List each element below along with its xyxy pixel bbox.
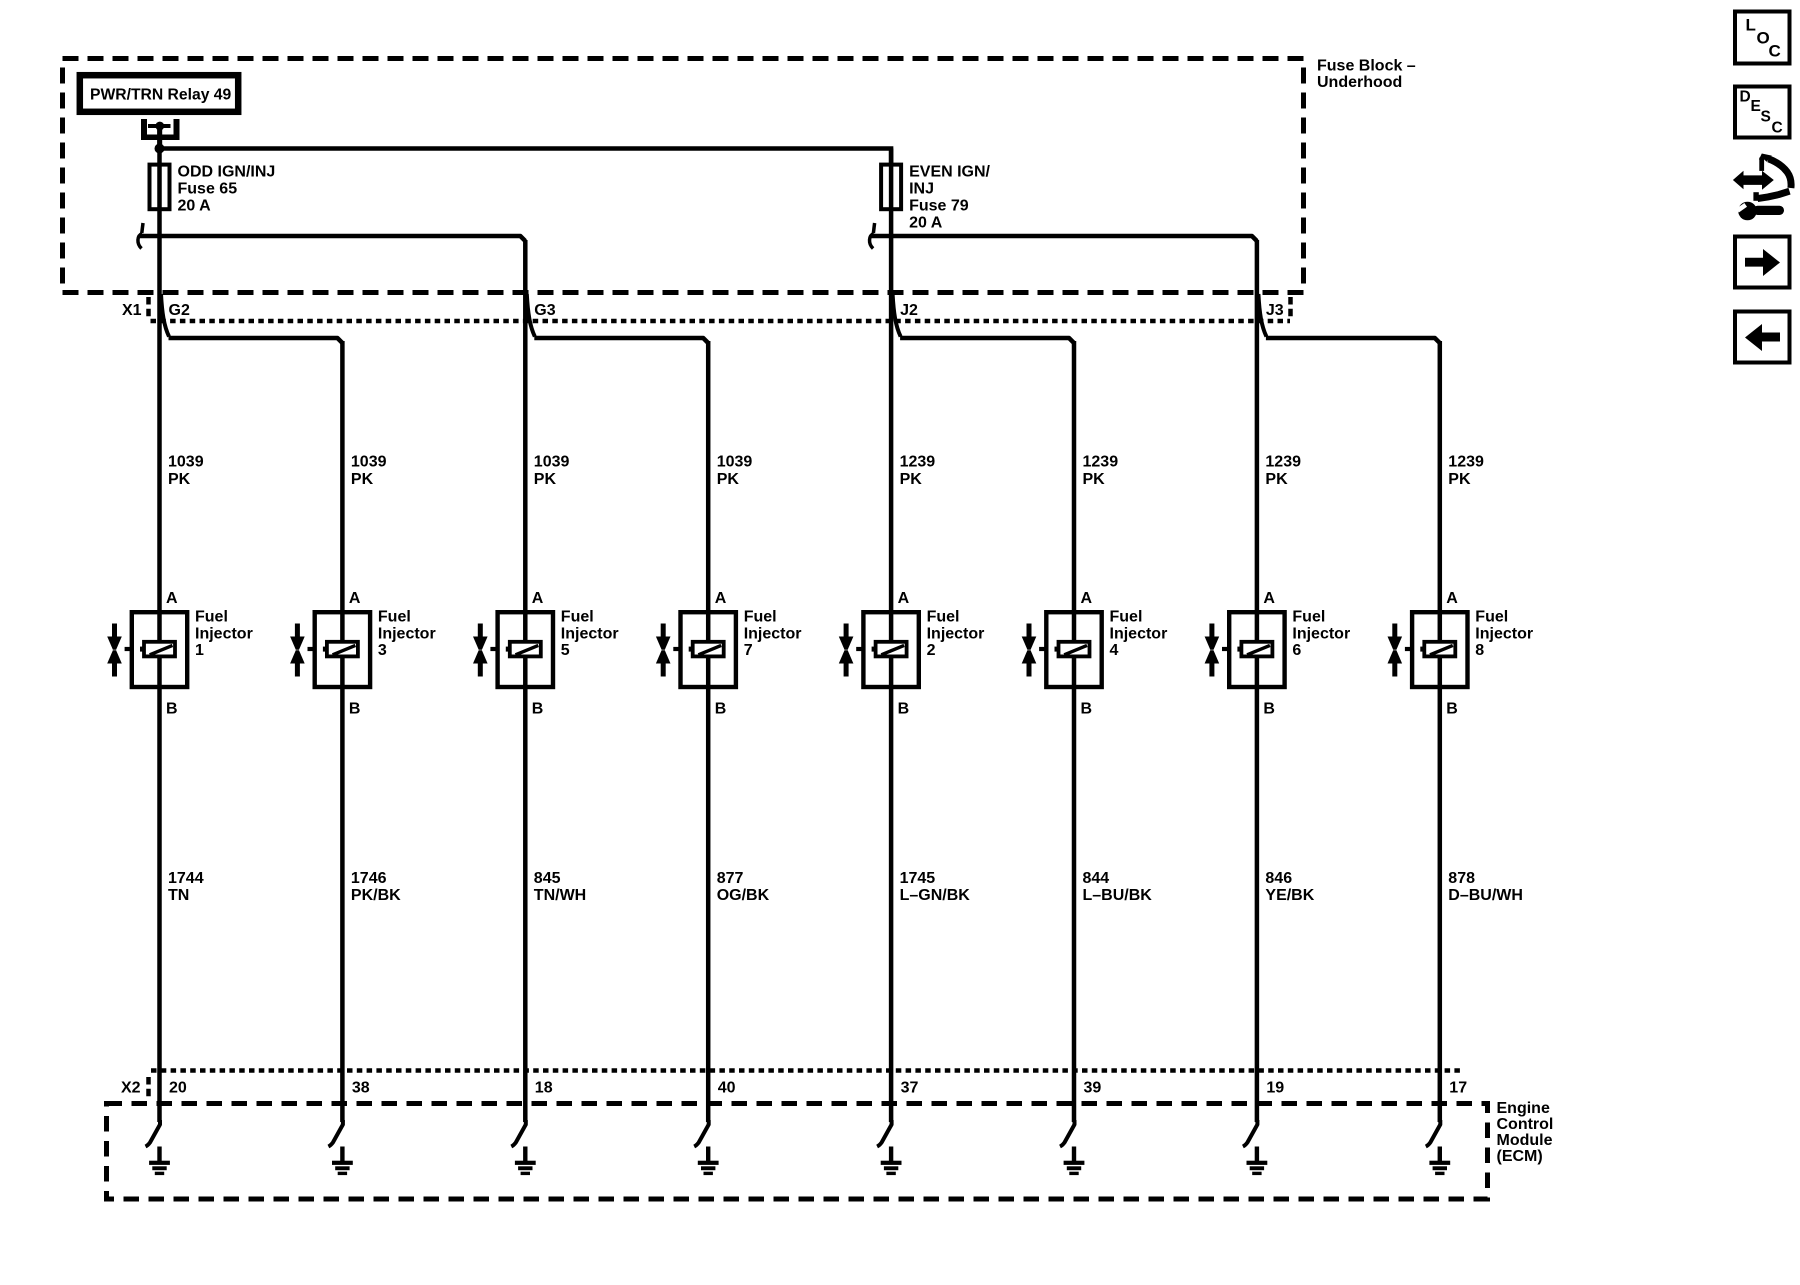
svg-text:A: A (715, 590, 727, 607)
svg-text:PK/BK: PK/BK (351, 887, 401, 904)
wire fuse output branch to column 6 (871, 236, 1257, 241)
svg-text:PK: PK (534, 471, 557, 488)
pin 37 terminal curve (877, 1120, 892, 1147)
svg-text:20 A: 20 A (909, 215, 943, 232)
svg-text:E: E (1751, 98, 1761, 115)
svg-text:YE/BK: YE/BK (1265, 887, 1314, 904)
svg-text:Injector: Injector (195, 625, 253, 642)
svg-text:19: 19 (1266, 1080, 1284, 1097)
svg-text:A: A (1081, 590, 1093, 607)
svg-text:ODD IGN/INJ: ODD IGN/INJ (178, 164, 276, 181)
svg-text:J2: J2 (900, 302, 918, 319)
svg-text:A: A (349, 590, 361, 607)
svg-text:1039: 1039 (351, 454, 387, 471)
svg-text:39: 39 (1084, 1080, 1102, 1097)
pin 17 label (1449, 1080, 1467, 1097)
svg-text:20 A: 20 A (178, 198, 212, 215)
wire label 1746 PK/BK column 3 (351, 870, 401, 904)
wire label 1239 PK column 2 (900, 454, 936, 488)
svg-text:B: B (532, 701, 544, 718)
fuse block underhood dashed box (63, 59, 1304, 293)
connector X1 dotted line (151, 319, 1291, 324)
injector 1 name label (195, 609, 253, 660)
injector 2 pin A label (898, 590, 910, 607)
svg-text:J3: J3 (1266, 302, 1284, 319)
wire label 844 L–BU/BK column 4 (1083, 870, 1153, 904)
fuel injector 6 (1229, 612, 1284, 687)
svg-text:Fuse 65: Fuse 65 (178, 181, 238, 198)
injector 8 valve nozzle symbol (1388, 624, 1413, 677)
svg-text:A: A (1446, 590, 1458, 607)
svg-text:1239: 1239 (900, 454, 936, 471)
ground column 4 (1064, 1147, 1085, 1176)
injector 6 pin B label (1263, 701, 1275, 718)
svg-text:L–BU/BK: L–BU/BK (1083, 887, 1153, 904)
svg-text:1744: 1744 (168, 870, 204, 887)
injector 1 pin B label (166, 701, 178, 718)
svg-text:Fuel: Fuel (1475, 609, 1508, 626)
wire vertical column 2 (889, 149, 894, 1123)
pin J2 label (900, 302, 918, 319)
fuel injector 8 (1412, 612, 1467, 687)
svg-text:Underhood: Underhood (1317, 74, 1402, 91)
wire fuse output branch to column 5 (140, 236, 526, 241)
pin G3 wire curve (527, 294, 535, 337)
wire branch J2 to column 4 (900, 338, 1074, 343)
svg-text:TN/WH: TN/WH (534, 887, 586, 904)
wiring repair icon (1733, 154, 1791, 221)
fuel injector 1 (132, 612, 187, 687)
svg-text:Fuel: Fuel (744, 609, 777, 626)
svg-text:Engine: Engine (1497, 1100, 1550, 1117)
svg-text:B: B (166, 701, 178, 718)
svg-text:7: 7 (744, 642, 753, 659)
svg-text:G3: G3 (534, 302, 555, 319)
svg-text:Injector: Injector (378, 625, 436, 642)
connector X2 tick (146, 1077, 151, 1097)
fuse F65 (150, 165, 170, 210)
pin 37 label (901, 1080, 919, 1097)
svg-text:844: 844 (1083, 870, 1110, 887)
wire branch G3 to column 7 (534, 338, 708, 343)
injector 7 name label (744, 609, 802, 660)
svg-text:Injector: Injector (744, 625, 802, 642)
pin 20 terminal curve (146, 1120, 161, 1147)
svg-text:1239: 1239 (1265, 454, 1301, 471)
injector 8 name label (1475, 609, 1533, 660)
svg-text:C: C (1772, 120, 1783, 137)
svg-text:PK: PK (900, 471, 923, 488)
injector 6 pin A label (1263, 590, 1275, 607)
svg-text:1039: 1039 (168, 454, 204, 471)
svg-text:6: 6 (1292, 642, 1301, 659)
fuel injector 5 (498, 612, 553, 687)
svg-text:PK: PK (168, 471, 191, 488)
pin G2 label (169, 302, 190, 319)
injector 7 valve nozzle symbol (656, 624, 681, 677)
wire label 1039 PK column 1 (168, 454, 204, 488)
injector 4 pin A label (1081, 590, 1093, 607)
wire vertical column 7 (706, 341, 711, 1122)
injector 2 valve nozzle symbol (839, 624, 864, 677)
pin 38 terminal curve (328, 1120, 343, 1147)
pin 17 terminal curve (1426, 1120, 1441, 1147)
injector 4 pin B label (1081, 701, 1093, 718)
wire vertical column 6 (1255, 240, 1260, 1122)
svg-text:EVEN IGN/: EVEN IGN/ (909, 164, 990, 181)
wire relay output to Fuse 79 (160, 149, 892, 167)
pin 39 terminal curve (1060, 1120, 1075, 1147)
relay PWR/TRN Relay 49 label box (80, 75, 238, 112)
connector X1 right tick (1288, 297, 1293, 318)
svg-text:8: 8 (1475, 642, 1484, 659)
svg-text:A: A (1263, 590, 1275, 607)
pin J3 label (1266, 302, 1284, 319)
svg-text:PK: PK (1083, 471, 1106, 488)
svg-text:Fuel: Fuel (1292, 609, 1325, 626)
svg-text:PK: PK (1265, 471, 1288, 488)
svg-text:877: 877 (717, 870, 744, 887)
svg-text:845: 845 (534, 870, 561, 887)
svg-text:Injector: Injector (561, 625, 619, 642)
injector 8 pin A label (1446, 590, 1458, 607)
ground column 1 (149, 1147, 170, 1176)
fuse F79 value label (909, 164, 990, 232)
node junction relay output (155, 144, 165, 154)
injector 4 valve nozzle symbol (1022, 624, 1047, 677)
svg-text:B: B (349, 701, 361, 718)
svg-text:B: B (1446, 701, 1458, 718)
svg-text:37: 37 (901, 1080, 919, 1097)
fuse F65 value label (178, 164, 276, 215)
back arrow button (1735, 312, 1790, 363)
injector 2 pin B label (898, 701, 910, 718)
fuel injector 4 (1046, 612, 1101, 687)
LOC button (1735, 12, 1790, 64)
svg-text:40: 40 (718, 1080, 736, 1097)
svg-text:1039: 1039 (717, 454, 753, 471)
pin 18 label (535, 1080, 553, 1097)
terminal hook at fuse output column 2 (870, 223, 875, 249)
svg-text:18: 18 (535, 1080, 553, 1097)
injector 6 valve nozzle symbol (1205, 624, 1230, 677)
svg-text:38: 38 (352, 1080, 370, 1097)
wire label 877 OG/BK column 7 (717, 870, 770, 904)
svg-text:B: B (898, 701, 910, 718)
injector 1 valve nozzle symbol (107, 624, 132, 677)
wire vertical column 8 (1438, 341, 1443, 1122)
injector 6 name label (1292, 609, 1350, 660)
pin 40 terminal curve (694, 1120, 709, 1147)
wire vertical column 1 (157, 125, 162, 1123)
svg-text:L–GN/BK: L–GN/BK (900, 887, 971, 904)
pin 20 label (169, 1080, 187, 1097)
terminal hook at fuse output column 1 (138, 223, 143, 249)
pin J3 wire curve (1258, 294, 1266, 337)
svg-text:Injector: Injector (1475, 625, 1533, 642)
svg-text:1039: 1039 (534, 454, 570, 471)
engine control module label (1497, 1100, 1554, 1165)
wire vertical column 5 (523, 240, 528, 1122)
engine control module dashed box (107, 1104, 1488, 1200)
pin 18 terminal curve (511, 1120, 526, 1147)
injector 7 pin A label (715, 590, 727, 607)
injector 5 valve nozzle symbol (473, 624, 498, 677)
ground column 3 (332, 1147, 353, 1176)
wire label 1744 TN column 1 (168, 870, 204, 904)
svg-text:3: 3 (378, 642, 387, 659)
svg-text:Fuel: Fuel (378, 609, 411, 626)
wire label 1039 PK column 7 (717, 454, 753, 488)
svg-text:X1: X1 (122, 302, 142, 319)
svg-text:1746: 1746 (351, 870, 387, 887)
svg-text:5: 5 (561, 642, 570, 659)
svg-text:(ECM): (ECM) (1497, 1148, 1543, 1165)
ground column 8 (1429, 1147, 1450, 1176)
wire label 1745 L–GN/BK column 2 (900, 870, 971, 904)
svg-text:B: B (1263, 701, 1275, 718)
wire label 1039 PK column 3 (351, 454, 387, 488)
connector X1 left tick (146, 297, 151, 318)
fuse F79 (881, 165, 901, 210)
pin 19 label (1266, 1080, 1284, 1097)
svg-text:PK: PK (717, 471, 740, 488)
injector 5 pin B label (532, 701, 544, 718)
fuel injector 3 (315, 612, 370, 687)
pin 19 terminal curve (1243, 1120, 1258, 1147)
svg-text:Fuel: Fuel (927, 609, 960, 626)
svg-text:L: L (1746, 16, 1756, 35)
svg-text:D–BU/WH: D–BU/WH (1448, 887, 1523, 904)
svg-text:Injector: Injector (927, 625, 985, 642)
svg-text:D: D (1740, 89, 1751, 106)
svg-text:Fuel: Fuel (1110, 609, 1143, 626)
wire label 846 YE/BK column 6 (1265, 870, 1314, 904)
pin 38 label (352, 1080, 370, 1097)
wire label 845 TN/WH column 5 (534, 870, 586, 904)
pin 39 label (1084, 1080, 1102, 1097)
svg-text:Injector: Injector (1292, 625, 1350, 642)
DESC button (1735, 87, 1790, 138)
pin G3 label (534, 302, 555, 319)
injector 5 name label (561, 609, 619, 660)
injector 3 pin A label (349, 590, 361, 607)
svg-text:X2: X2 (121, 1080, 141, 1097)
svg-text:Control: Control (1497, 1116, 1554, 1133)
wire label 878 D–BU/WH column 8 (1448, 870, 1523, 904)
svg-text:1745: 1745 (900, 870, 936, 887)
svg-text:B: B (715, 701, 727, 718)
fuel injector 7 (681, 612, 736, 687)
wire label 1239 PK column 6 (1265, 454, 1301, 488)
svg-text:TN: TN (168, 887, 189, 904)
svg-text:OG/BK: OG/BK (717, 887, 770, 904)
injector 1 pin A label (166, 590, 178, 607)
svg-text:Module: Module (1497, 1132, 1553, 1149)
svg-text:A: A (898, 590, 910, 607)
svg-text:878: 878 (1448, 870, 1475, 887)
wire vertical column 3 (340, 341, 345, 1122)
svg-text:1239: 1239 (1448, 454, 1484, 471)
pin 40 label (718, 1080, 736, 1097)
injector 7 pin B label (715, 701, 727, 718)
ground column 5 (515, 1147, 536, 1176)
connector X2 label (121, 1080, 141, 1097)
wire label 1239 PK column 8 (1448, 454, 1484, 488)
svg-text:20: 20 (169, 1080, 187, 1097)
wire label 1239 PK column 4 (1083, 454, 1119, 488)
svg-text:17: 17 (1449, 1080, 1467, 1097)
svg-text:Fuse Block –: Fuse Block – (1317, 58, 1416, 75)
svg-text:4: 4 (1110, 642, 1119, 659)
pin J2 wire curve (893, 294, 901, 337)
injector 3 name label (378, 609, 436, 660)
svg-text:C: C (1769, 42, 1781, 61)
svg-text:PWR/TRN Relay 49: PWR/TRN Relay 49 (90, 87, 232, 104)
connector X2 dotted line (151, 1068, 1464, 1073)
svg-text:B: B (1081, 701, 1093, 718)
injector 4 name label (1110, 609, 1168, 660)
fuse block underhood label (1317, 58, 1416, 92)
connector X1 label (122, 302, 142, 319)
wire vertical column 4 (1072, 341, 1077, 1122)
injector 5 pin A label (532, 590, 544, 607)
relay K49 contact (141, 119, 180, 151)
ground column 2 (881, 1147, 902, 1176)
ground column 7 (698, 1147, 719, 1176)
svg-text:1: 1 (195, 642, 204, 659)
svg-text:Fuel: Fuel (195, 609, 228, 626)
wire branch J3 to column 8 (1266, 338, 1440, 343)
wire label 1039 PK column 5 (534, 454, 570, 488)
svg-text:PK: PK (1448, 471, 1471, 488)
svg-text:A: A (166, 590, 178, 607)
injector 3 valve nozzle symbol (290, 624, 315, 677)
injector 8 pin B label (1446, 701, 1458, 718)
ground column 6 (1247, 1147, 1268, 1176)
wire branch G2 to column 3 (169, 338, 343, 343)
svg-text:846: 846 (1265, 870, 1292, 887)
pin G2 wire curve (161, 294, 169, 337)
svg-text:G2: G2 (169, 302, 190, 319)
svg-text:Fuel: Fuel (561, 609, 594, 626)
next arrow button (1735, 237, 1790, 288)
fuel injector 2 (863, 612, 918, 687)
injector 2 name label (927, 609, 985, 660)
svg-text:S: S (1761, 109, 1771, 126)
svg-text:A: A (532, 590, 544, 607)
svg-text:Fuse 79: Fuse 79 (909, 198, 969, 215)
svg-text:Injector: Injector (1110, 625, 1168, 642)
svg-text:PK: PK (351, 471, 374, 488)
injector 3 pin B label (349, 701, 361, 718)
svg-text:2: 2 (927, 642, 936, 659)
svg-text:1239: 1239 (1083, 454, 1119, 471)
svg-text:INJ: INJ (909, 181, 934, 198)
